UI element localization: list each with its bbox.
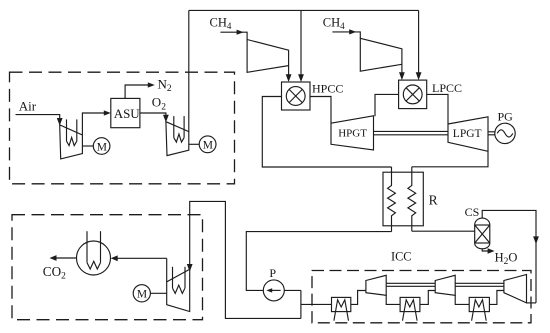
wire ICC stage C suction from CS — [527, 302, 537, 304]
shaft LPGT-PG — [488, 132, 495, 135]
wire junction riser at pump — [300, 290, 302, 318]
svg-text:R: R — [429, 192, 438, 207]
wire O2 header riser — [188, 10, 190, 131]
combustor HPCC — [282, 82, 344, 110]
svg-text:M: M — [97, 141, 107, 153]
node CO2 label — [43, 264, 66, 282]
wire pump discharge to recuperator — [246, 232, 391, 291]
wire IC3 to ICC stage B suction — [455, 295, 469, 304]
svg-text:ICC: ICC — [391, 250, 412, 264]
wire ICC stage A discharge to IC1 — [351, 291, 366, 305]
node Air label — [19, 99, 37, 114]
intercooler IC3 — [469, 297, 489, 320]
svg-text:M: M — [203, 140, 213, 152]
compressor CH4 compressor 1 — [247, 40, 289, 73]
intercooler IC1 — [332, 297, 351, 320]
node CH4 label 1 — [210, 16, 232, 32]
wire recuperator cold out to HPCC — [262, 97, 391, 168]
shaft HPGT-LPGT — [374, 131, 449, 134]
wire HPCC to HPGT — [310, 97, 331, 124]
svg-text:Air: Air — [19, 99, 37, 114]
compressor ICC stage A — [366, 275, 386, 295]
compressor ICC stage B — [435, 275, 455, 295]
node H2O label — [495, 250, 518, 267]
wire LPGT exhaust to recuperator — [412, 151, 488, 167]
svg-text:O2: O2 — [152, 95, 166, 113]
wire CH4 compressor 2 to LPCC — [399, 64, 405, 80]
wire recuperator hot out to CS — [412, 230, 475, 232]
motor M2 (O2 compressor) — [189, 136, 216, 153]
generator PG — [495, 110, 515, 144]
shaft ICC A-B — [386, 283, 435, 286]
svg-text:N2: N2 — [158, 76, 172, 94]
wire CO2 bleed bottom run — [187, 201, 301, 318]
ICC dashed boundary box — [312, 271, 531, 323]
svg-text:CO2: CO2 — [43, 264, 66, 282]
turbine HPGT — [331, 116, 374, 150]
svg-text:CH4: CH4 — [210, 16, 232, 32]
recuperator R box — [383, 172, 438, 226]
wire IC2 to ICC stage A suction — [386, 295, 400, 304]
svg-text:HPGT: HPGT — [338, 128, 367, 140]
svg-text:ASU: ASU — [114, 106, 141, 121]
motor M1 (air compressor) — [82, 138, 109, 155]
combustor LPCC — [399, 80, 462, 109]
svg-text:P: P — [269, 266, 276, 280]
CO2 compression dashed boundary box — [12, 215, 203, 320]
motor M3 (CO2 compressor) — [133, 285, 167, 302]
compressor air compressor — [60, 119, 83, 158]
wire CH4 feed 1 — [220, 30, 247, 40]
node ICC label — [391, 250, 412, 264]
compressor CH4 compressor 2 — [360, 38, 402, 71]
wire ICC stage C discharge to IC3 — [489, 291, 504, 305]
wire LPCC to LPGT — [427, 94, 448, 124]
resistor coil hot side (right) in R — [408, 167, 416, 231]
compressor ICC stage C — [504, 275, 527, 303]
wire ICC first stage discharge to pump — [301, 303, 332, 305]
svg-text:PG: PG — [498, 110, 514, 124]
wire CH4 compressor 1 to HPCC — [286, 66, 292, 82]
resistor coil cold side (left) in R — [388, 167, 396, 232]
wire top O2 header — [189, 9, 419, 11]
intercooler IC2 — [400, 297, 420, 320]
heat-exchanger CO2 cooler — [77, 231, 111, 275]
svg-text:LPCC: LPCC — [432, 81, 462, 95]
wire N2 outlet — [125, 82, 155, 98]
ASU box U1 — [111, 98, 141, 127]
wire ICC stage B discharge to IC2 — [420, 291, 435, 305]
turbine LPGT — [448, 117, 488, 152]
svg-text:HPCC: HPCC — [312, 82, 343, 96]
wire HPGT exhaust to LPCC — [375, 94, 399, 116]
wire CO2 product outlet — [50, 255, 77, 261]
compressor CO2 compressor — [167, 258, 190, 311]
node CH4 label 2 — [323, 15, 345, 31]
wire CS overhead to ICC — [482, 210, 539, 303]
wire O2 branch into LPCC — [416, 10, 422, 80]
compressor O2 compressor — [166, 116, 189, 156]
wire O2 branch into HPCC — [298, 10, 304, 82]
svg-text:LPGT: LPGT — [453, 128, 482, 140]
wire air compressor to ASU — [82, 110, 110, 135]
wire Air inlet — [16, 115, 63, 126]
wire H2O drain — [482, 248, 494, 253]
shaft ICC B-C — [455, 283, 504, 286]
wire CH4 feed 2 — [332, 29, 360, 38]
wire ASU O2 outlet — [140, 113, 169, 122]
svg-text:CH4: CH4 — [323, 15, 345, 31]
node N2 label — [158, 76, 172, 94]
wire CO2 compressor to cooler — [111, 255, 167, 261]
separator CS — [465, 205, 490, 249]
svg-text:H2O: H2O — [495, 250, 518, 267]
svg-text:M: M — [137, 289, 147, 301]
wire ICC outlet to pump suction — [284, 289, 301, 291]
pump P — [263, 266, 284, 301]
node O2 label — [152, 95, 166, 113]
ASU unit dashed boundary box — [10, 72, 235, 184]
svg-text:CS: CS — [465, 205, 480, 219]
